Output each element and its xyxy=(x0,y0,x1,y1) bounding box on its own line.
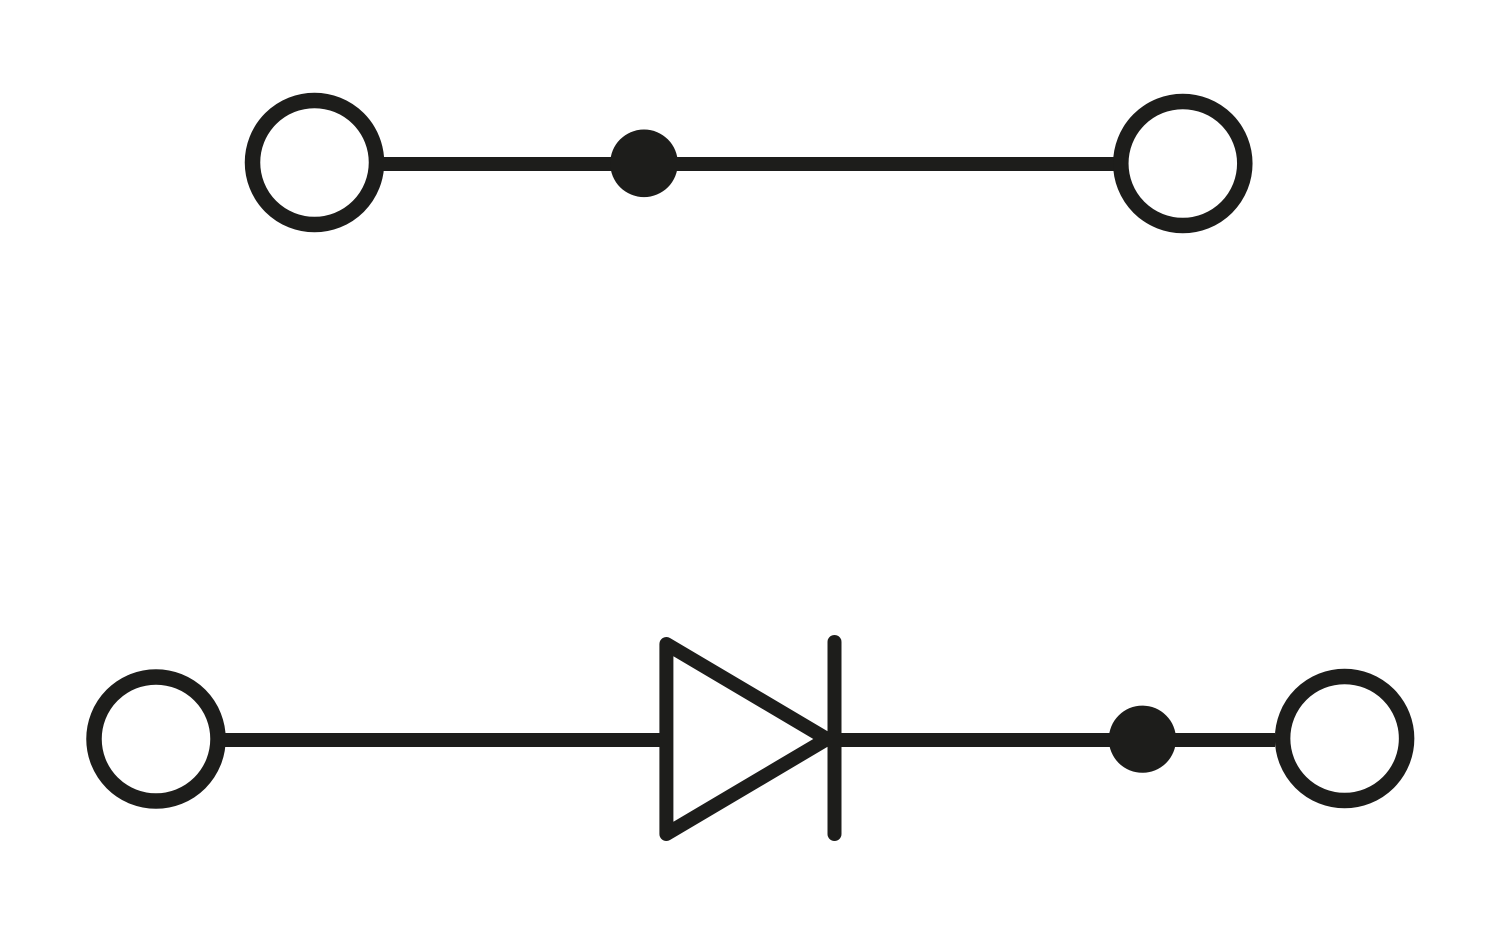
terminal circle top-right (contact point 2) xyxy=(1121,102,1245,226)
wire bottom rail anode segment xyxy=(225,733,666,747)
junction dot top rail (center tap node) xyxy=(610,130,678,198)
terminal circle bottom-left (contact point 3) xyxy=(94,677,218,801)
diode triangle (anode) xyxy=(666,644,827,834)
wire bottom rail right segment xyxy=(1142,733,1275,747)
wire bottom rail cathode segment xyxy=(835,733,1143,747)
diode cathode bar xyxy=(828,642,842,834)
terminal circle top-left (contact point 1) xyxy=(253,101,377,225)
junction dot bottom rail (cathode tap node) xyxy=(1109,706,1176,773)
wire top rail right segment xyxy=(644,157,1114,171)
wire top rail left segment xyxy=(383,157,644,171)
terminal circle bottom-right (contact point 4) xyxy=(1283,677,1407,801)
